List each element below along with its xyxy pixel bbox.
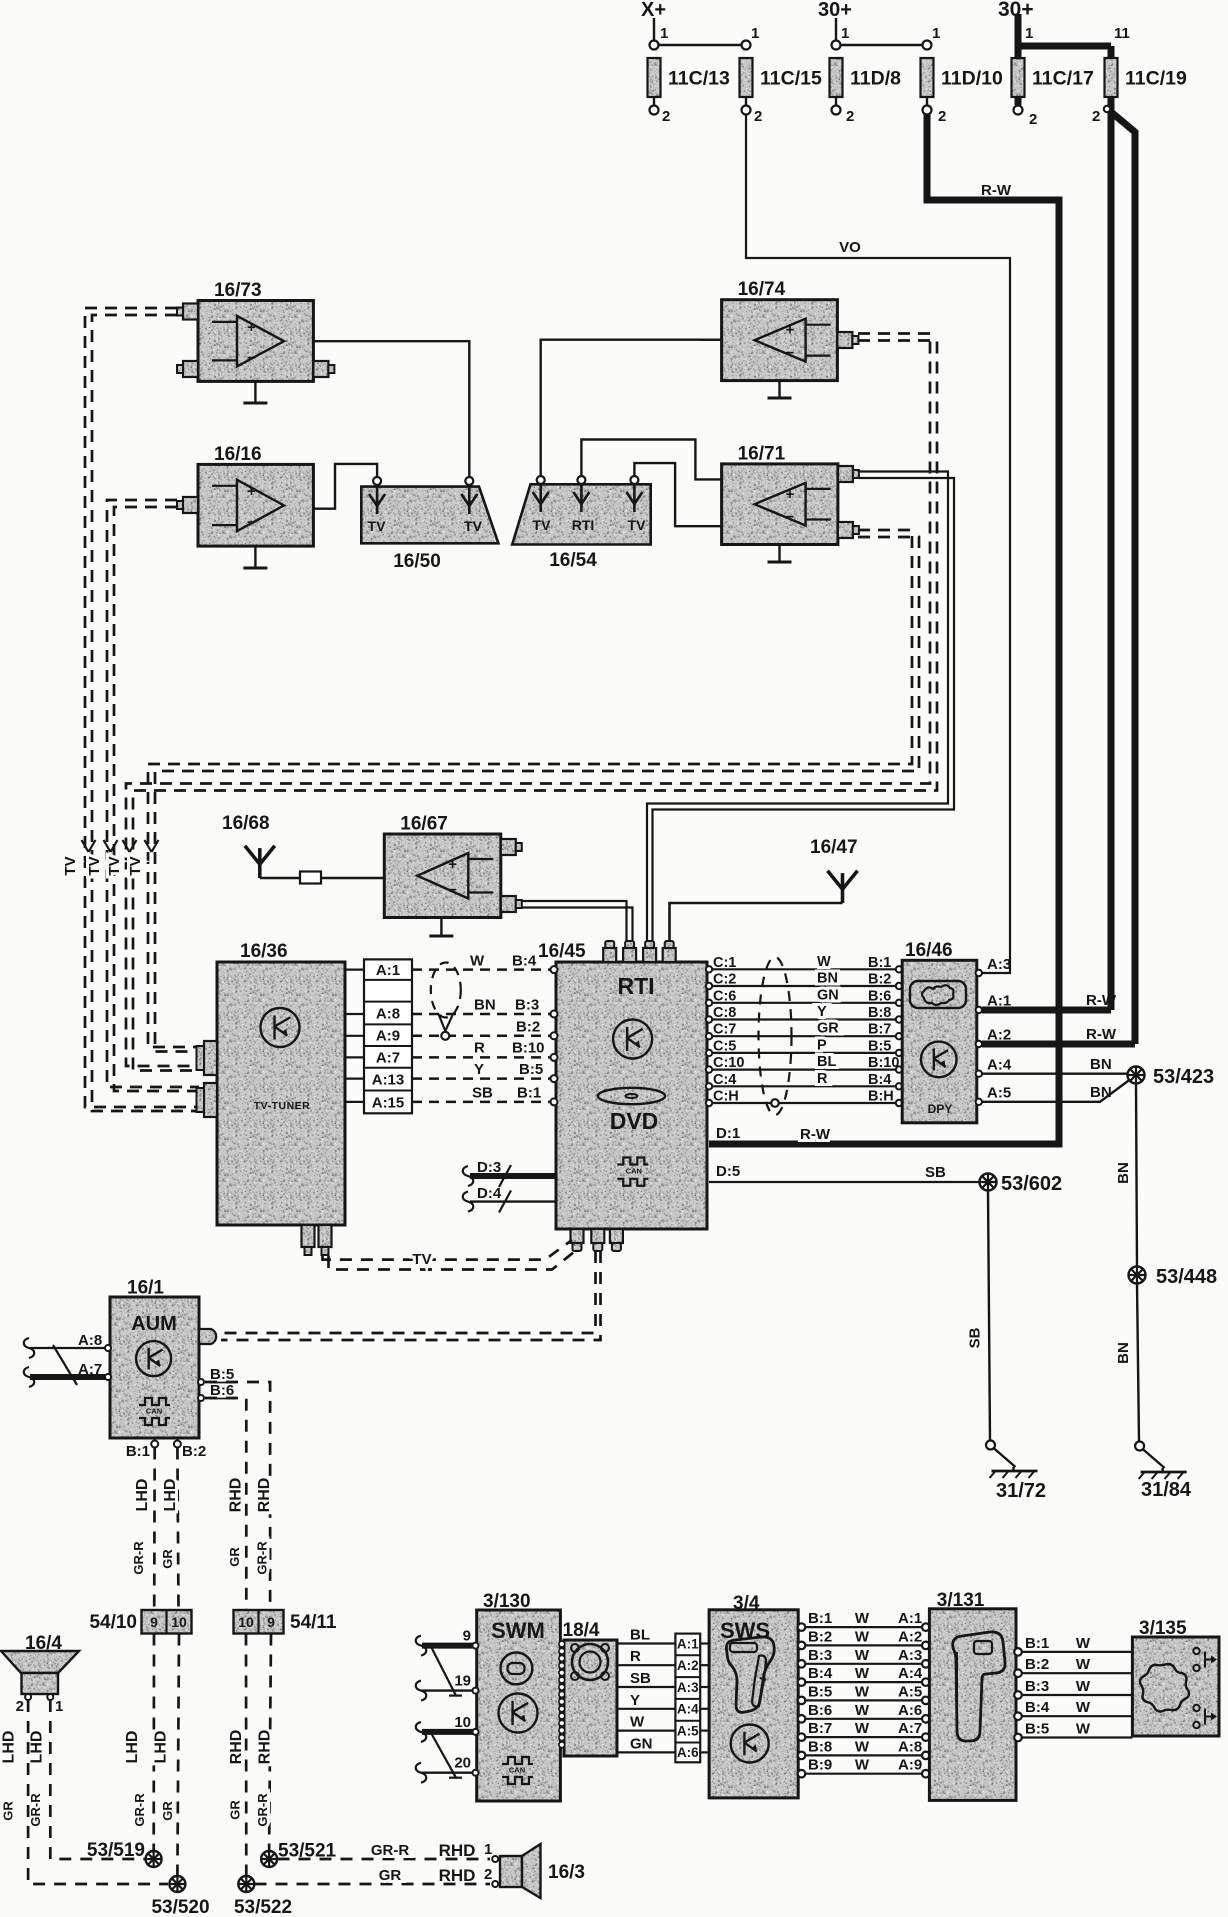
- svg-text:LHD: LHD: [153, 1731, 170, 1764]
- svg-text:11D/8: 11D/8: [850, 68, 901, 90]
- svg-text:B:10: B:10: [868, 1055, 899, 1071]
- svg-text:−: −: [247, 349, 256, 366]
- svg-text:W: W: [1076, 1678, 1091, 1695]
- svg-text:Y: Y: [817, 1004, 827, 1020]
- svg-text:A:4: A:4: [677, 1702, 699, 1717]
- svg-text:B:2: B:2: [516, 1019, 540, 1036]
- svg-text:9: 9: [150, 1614, 158, 1630]
- svg-text:LHD: LHD: [124, 1731, 141, 1764]
- svg-text:W: W: [855, 1628, 870, 1645]
- svg-text:A:2: A:2: [898, 1628, 922, 1645]
- svg-text:GR: GR: [160, 1801, 175, 1821]
- svg-text:53/522: 53/522: [234, 1897, 292, 1917]
- svg-text:11C/19: 11C/19: [1125, 68, 1187, 90]
- svg-text:TV-TUNER: TV-TUNER: [254, 1100, 311, 1112]
- svg-text:B:8: B:8: [808, 1738, 832, 1755]
- svg-text:1: 1: [1025, 25, 1033, 42]
- svg-text:10: 10: [238, 1614, 254, 1630]
- svg-text:A:3: A:3: [677, 1680, 699, 1695]
- svg-text:W: W: [817, 954, 831, 970]
- svg-text:53/602: 53/602: [1001, 1173, 1062, 1195]
- svg-text:B:2: B:2: [1025, 1656, 1049, 1673]
- svg-text:TV: TV: [464, 518, 483, 534]
- svg-text:W: W: [470, 953, 485, 970]
- svg-text:D:1: D:1: [716, 1125, 740, 1142]
- svg-text:C:2: C:2: [713, 972, 736, 988]
- svg-text:B:8: B:8: [868, 1005, 891, 1021]
- svg-text:B:3: B:3: [1025, 1678, 1049, 1695]
- svg-text:A:1: A:1: [677, 1636, 699, 1651]
- svg-text:1: 1: [751, 25, 759, 42]
- svg-text:−: −: [786, 509, 795, 526]
- svg-text:B:1: B:1: [868, 955, 891, 971]
- svg-text:RHD: RHD: [439, 1841, 476, 1860]
- svg-text:B:7: B:7: [868, 1022, 891, 1038]
- svg-text:20: 20: [454, 1755, 471, 1772]
- svg-text:2: 2: [16, 1698, 24, 1715]
- svg-text:GR-R: GR-R: [131, 1541, 146, 1575]
- svg-text:A:8: A:8: [376, 1006, 400, 1023]
- svg-text:B:1: B:1: [1025, 1635, 1049, 1652]
- svg-text:C:1: C:1: [713, 955, 736, 971]
- svg-text:GR: GR: [1, 1801, 16, 1821]
- svg-text:2: 2: [1092, 108, 1100, 125]
- svg-text:54/10: 54/10: [89, 1612, 137, 1633]
- svg-text:16/74: 16/74: [738, 279, 786, 300]
- svg-text:GR: GR: [817, 1021, 839, 1037]
- svg-text:DPY: DPY: [928, 1102, 953, 1116]
- svg-text:10: 10: [171, 1614, 187, 1630]
- svg-text:+: +: [448, 856, 457, 873]
- svg-text:1: 1: [660, 25, 668, 42]
- svg-text:+: +: [247, 483, 256, 500]
- svg-text:B:1: B:1: [517, 1085, 541, 1102]
- svg-text:SWM: SWM: [491, 1618, 545, 1643]
- svg-text:A:15: A:15: [372, 1094, 405, 1111]
- svg-text:BN: BN: [1090, 1084, 1112, 1101]
- svg-text:A:13: A:13: [372, 1072, 405, 1089]
- svg-text:B:3: B:3: [808, 1647, 832, 1664]
- svg-text:16/1: 16/1: [127, 1278, 164, 1299]
- svg-text:B:7: B:7: [808, 1720, 832, 1737]
- svg-text:R: R: [474, 1040, 485, 1057]
- svg-text:B:4: B:4: [1025, 1699, 1050, 1716]
- svg-text:TV: TV: [533, 517, 552, 533]
- svg-text:16/73: 16/73: [214, 280, 262, 301]
- svg-text:BN: BN: [474, 997, 496, 1014]
- svg-text:RTI: RTI: [617, 973, 654, 999]
- svg-text:2: 2: [846, 108, 854, 125]
- svg-text:31/84: 31/84: [1141, 1479, 1192, 1501]
- svg-text:+: +: [786, 486, 795, 503]
- svg-text:W: W: [1076, 1656, 1091, 1673]
- svg-text:GR-R: GR-R: [255, 1793, 270, 1827]
- svg-text:C:5: C:5: [713, 1038, 736, 1054]
- svg-text:GR: GR: [160, 1549, 175, 1569]
- svg-text:GR-R: GR-R: [28, 1793, 43, 1827]
- svg-text:16/36: 16/36: [240, 941, 288, 962]
- svg-text:W: W: [855, 1720, 870, 1737]
- svg-text:1: 1: [484, 1841, 492, 1858]
- svg-text:2: 2: [938, 108, 946, 125]
- svg-text:W: W: [855, 1647, 870, 1664]
- svg-text:11: 11: [1114, 25, 1130, 42]
- svg-text:A:2: A:2: [677, 1658, 699, 1673]
- svg-text:B:H: B:H: [868, 1089, 894, 1105]
- svg-text:16/46: 16/46: [905, 940, 953, 961]
- svg-text:B:9: B:9: [808, 1757, 832, 1774]
- svg-text:W: W: [630, 1714, 645, 1731]
- svg-text:53/519: 53/519: [87, 1840, 145, 1861]
- svg-text:SB: SB: [472, 1085, 493, 1102]
- svg-text:D:3: D:3: [477, 1159, 501, 1176]
- svg-text:RHD: RHD: [439, 1866, 476, 1885]
- svg-text:B:6: B:6: [210, 1382, 234, 1399]
- svg-text:B:2: B:2: [808, 1628, 832, 1645]
- svg-text:LHD: LHD: [1, 1731, 18, 1764]
- svg-text:2: 2: [484, 1866, 492, 1883]
- svg-text:11D/10: 11D/10: [941, 68, 1003, 90]
- svg-text:C:6: C:6: [713, 988, 736, 1004]
- svg-text:TV: TV: [368, 518, 387, 534]
- svg-text:RTI: RTI: [572, 517, 595, 533]
- svg-text:B:4: B:4: [512, 953, 537, 970]
- svg-text:B:5: B:5: [808, 1683, 832, 1700]
- svg-text:TV: TV: [86, 856, 103, 875]
- svg-text:R: R: [630, 1648, 641, 1665]
- svg-text:R-W: R-W: [1086, 992, 1117, 1009]
- svg-text:W: W: [855, 1738, 870, 1755]
- svg-text:30+: 30+: [818, 0, 852, 21]
- svg-text:C:4: C:4: [713, 1072, 736, 1088]
- svg-text:C:8: C:8: [713, 1005, 736, 1021]
- svg-text:11C/15: 11C/15: [760, 68, 822, 90]
- svg-text:BN: BN: [1115, 1342, 1132, 1364]
- svg-text:B:6: B:6: [808, 1702, 832, 1719]
- svg-text:A:9: A:9: [898, 1757, 922, 1774]
- svg-text:R-W: R-W: [800, 1126, 831, 1143]
- svg-text:SB: SB: [925, 1164, 946, 1181]
- svg-text:A:5: A:5: [677, 1723, 699, 1738]
- svg-text:−: −: [786, 345, 795, 362]
- svg-text:D:4: D:4: [477, 1185, 502, 1202]
- svg-text:DVD: DVD: [610, 1108, 659, 1134]
- svg-text:B:5: B:5: [210, 1366, 234, 1383]
- svg-text:B:4: B:4: [808, 1665, 833, 1682]
- svg-text:GN: GN: [817, 987, 839, 1003]
- svg-text:31/72: 31/72: [996, 1480, 1046, 1502]
- svg-text:+: +: [247, 319, 256, 336]
- svg-text:GN: GN: [630, 1735, 653, 1752]
- svg-text:B:1: B:1: [126, 1443, 150, 1460]
- svg-text:A:9: A:9: [376, 1028, 400, 1045]
- svg-text:W: W: [855, 1683, 870, 1700]
- svg-text:CAN: CAN: [626, 1167, 642, 1176]
- svg-text:LHD: LHD: [29, 1731, 46, 1764]
- svg-text:A:3: A:3: [898, 1647, 922, 1664]
- svg-text:A:8: A:8: [78, 1332, 102, 1349]
- svg-text:VO: VO: [839, 239, 861, 256]
- svg-text:Y: Y: [474, 1061, 484, 1078]
- svg-text:+: +: [786, 322, 795, 339]
- svg-text:−: −: [247, 514, 256, 531]
- svg-text:16/68: 16/68: [222, 813, 270, 834]
- svg-text:B:2: B:2: [182, 1443, 206, 1460]
- svg-text:16/54: 16/54: [549, 550, 597, 571]
- svg-text:B:10: B:10: [512, 1040, 545, 1057]
- svg-text:A:5: A:5: [987, 1085, 1011, 1102]
- svg-text:Y: Y: [630, 1692, 640, 1709]
- svg-text:3/130: 3/130: [483, 1591, 531, 1612]
- svg-text:BL: BL: [630, 1627, 650, 1644]
- svg-text:BN: BN: [1115, 1162, 1132, 1184]
- svg-text:C:7: C:7: [713, 1022, 736, 1038]
- svg-text:A:4: A:4: [987, 1057, 1012, 1074]
- svg-text:16/71: 16/71: [738, 443, 786, 464]
- svg-text:B:6: B:6: [868, 988, 891, 1004]
- svg-text:GR-R: GR-R: [132, 1793, 147, 1827]
- svg-text:16/67: 16/67: [400, 814, 448, 835]
- svg-text:−: −: [448, 882, 457, 899]
- svg-text:53/448: 53/448: [1156, 1266, 1217, 1288]
- svg-text:R-W: R-W: [1086, 1026, 1117, 1043]
- svg-text:53/423: 53/423: [1153, 1066, 1214, 1088]
- svg-text:C:10: C:10: [713, 1055, 744, 1071]
- svg-text:11C/17: 11C/17: [1032, 68, 1094, 90]
- svg-text:A:7: A:7: [78, 1361, 102, 1378]
- svg-text:X+: X+: [641, 0, 666, 21]
- svg-text:B:4: B:4: [868, 1072, 891, 1088]
- svg-text:B:3: B:3: [515, 997, 539, 1014]
- svg-text:RHD: RHD: [257, 1730, 274, 1765]
- svg-text:9: 9: [267, 1614, 275, 1630]
- svg-text:RHD: RHD: [228, 1730, 245, 1765]
- svg-text:C:H: C:H: [713, 1089, 739, 1105]
- svg-text:GR: GR: [228, 1800, 243, 1820]
- svg-text:W: W: [855, 1702, 870, 1719]
- svg-text:16/50: 16/50: [393, 551, 441, 572]
- svg-text:18/4: 18/4: [563, 1620, 600, 1641]
- svg-text:W: W: [1076, 1635, 1091, 1652]
- svg-text:P: P: [817, 1037, 827, 1053]
- svg-text:RHD: RHD: [228, 1478, 245, 1513]
- svg-text:B:1: B:1: [808, 1610, 832, 1627]
- svg-text:TV: TV: [628, 517, 647, 533]
- svg-text:SB: SB: [967, 1327, 984, 1348]
- svg-text:9: 9: [463, 1628, 471, 1645]
- svg-text:LHD: LHD: [134, 1479, 151, 1512]
- svg-text:TV: TV: [127, 856, 144, 875]
- svg-text:TV: TV: [62, 856, 79, 875]
- svg-text:A:7: A:7: [376, 1049, 400, 1066]
- svg-text:11C/13: 11C/13: [668, 68, 730, 90]
- svg-text:B:2: B:2: [868, 972, 891, 988]
- svg-text:1: 1: [841, 25, 849, 42]
- svg-text:A:3: A:3: [987, 956, 1011, 973]
- svg-text:B:5: B:5: [1025, 1721, 1049, 1738]
- svg-text:A:1: A:1: [898, 1610, 922, 1627]
- svg-text:CAN: CAN: [509, 1766, 525, 1775]
- svg-text:RHD: RHD: [256, 1478, 273, 1513]
- svg-text:A:8: A:8: [898, 1738, 922, 1755]
- svg-text:54/11: 54/11: [290, 1612, 337, 1633]
- svg-text:A:1: A:1: [376, 962, 400, 979]
- svg-text:GR: GR: [227, 1547, 242, 1567]
- svg-text:B:5: B:5: [868, 1038, 891, 1054]
- svg-text:A:7: A:7: [898, 1720, 922, 1737]
- svg-text:GR-R: GR-R: [371, 1842, 409, 1859]
- svg-text:10: 10: [454, 1714, 471, 1731]
- svg-text:B:5: B:5: [519, 1061, 543, 1078]
- svg-text:1: 1: [55, 1698, 63, 1715]
- svg-text:A:4: A:4: [898, 1665, 923, 1682]
- svg-text:53/520: 53/520: [151, 1897, 209, 1917]
- svg-text:GR-R: GR-R: [255, 1541, 270, 1575]
- svg-text:BN: BN: [1090, 1056, 1112, 1073]
- svg-text:2: 2: [754, 108, 762, 125]
- svg-text:R: R: [817, 1071, 828, 1087]
- svg-text:CAN: CAN: [146, 1407, 162, 1416]
- svg-text:2: 2: [1029, 111, 1037, 128]
- svg-text:TV: TV: [106, 856, 123, 875]
- svg-text:16/3: 16/3: [548, 1862, 585, 1883]
- svg-text:GR: GR: [379, 1867, 402, 1884]
- svg-text:2: 2: [662, 108, 670, 125]
- svg-text:A:6: A:6: [898, 1702, 922, 1719]
- svg-text:AUM: AUM: [131, 1313, 177, 1335]
- svg-text:LHD: LHD: [162, 1479, 179, 1512]
- svg-text:W: W: [855, 1665, 870, 1682]
- svg-text:SB: SB: [630, 1670, 651, 1687]
- svg-text:16/16: 16/16: [214, 444, 262, 465]
- svg-text:16/47: 16/47: [810, 837, 858, 858]
- svg-text:R-W: R-W: [981, 182, 1012, 199]
- svg-text:W: W: [855, 1610, 870, 1627]
- svg-text:BL: BL: [817, 1054, 836, 1070]
- svg-text:W: W: [855, 1757, 870, 1774]
- svg-text:TV: TV: [412, 1251, 431, 1268]
- svg-text:A:5: A:5: [898, 1683, 922, 1700]
- svg-text:16/45: 16/45: [538, 941, 586, 962]
- svg-text:BN: BN: [817, 971, 838, 987]
- svg-text:19: 19: [454, 1673, 471, 1690]
- svg-text:D:5: D:5: [716, 1163, 740, 1180]
- svg-text:1: 1: [932, 25, 940, 42]
- svg-text:W: W: [1076, 1721, 1091, 1738]
- svg-text:W: W: [1076, 1699, 1091, 1716]
- svg-text:A:6: A:6: [677, 1745, 699, 1760]
